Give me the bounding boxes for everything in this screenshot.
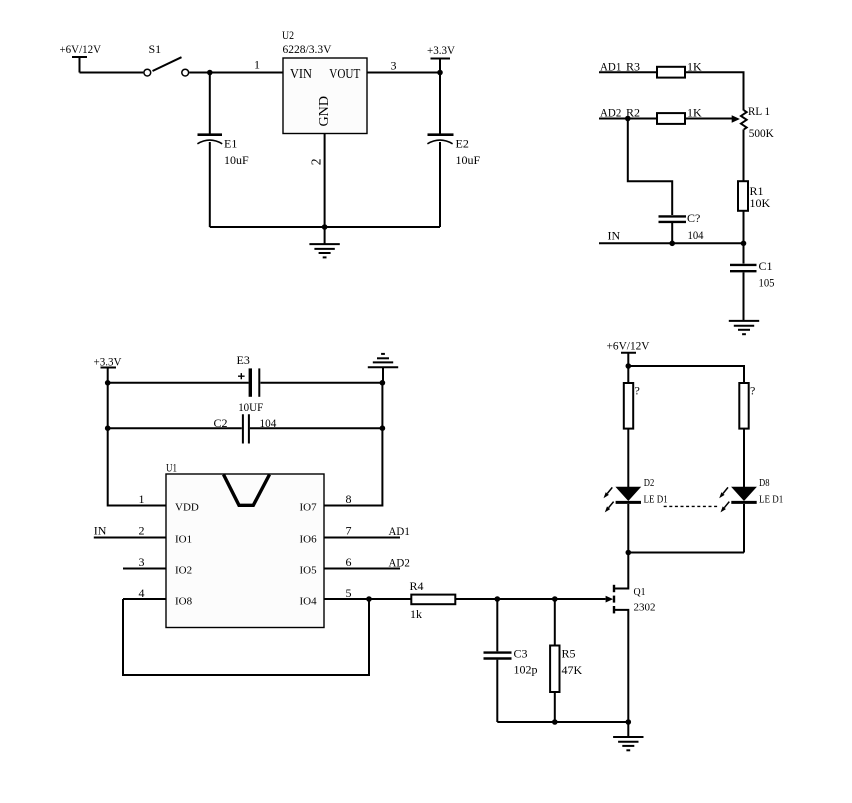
capacitor C? [659, 211, 704, 242]
svg-text:IO1: IO1 [175, 534, 192, 546]
junction [105, 425, 111, 431]
wire [671, 223, 673, 243]
svg-text:104: 104 [688, 228, 704, 242]
svg-text:E3: E3 [237, 353, 250, 367]
wire top rail [628, 366, 744, 383]
transistor Q1 [606, 585, 656, 722]
svg-text:1k: 1k [410, 607, 422, 621]
wire right vertical [324, 383, 382, 506]
svg-text:LE D1: LE D1 [759, 493, 783, 505]
junction [626, 550, 632, 556]
svg-text:U2: U2 [282, 28, 294, 42]
svg-text:+3.3V: +3.3V [427, 43, 455, 57]
svg-text:102p: 102p [514, 663, 538, 677]
svg-text:IO4: IO4 [300, 596, 318, 608]
svg-text:E1: E1 [224, 137, 237, 151]
svg-text:LE D1: LE D1 [644, 493, 668, 505]
svg-text:IO2: IO2 [175, 565, 192, 577]
wiper arrow [732, 115, 740, 123]
svg-text:C2: C2 [214, 416, 228, 430]
svg-text:VDD: VDD [175, 502, 199, 514]
junction [669, 241, 675, 247]
power +6V/12V (top-left) [60, 42, 102, 73]
junction [380, 425, 386, 431]
junction [495, 596, 501, 602]
pin 2 wire [94, 537, 166, 539]
svg-text:IO7: IO7 [300, 502, 318, 514]
svg-text:IN: IN [608, 229, 621, 243]
resistor ? (left) [624, 383, 640, 429]
wire to gate [455, 598, 605, 600]
svg-text:GND: GND [316, 96, 331, 127]
ground (U2) [309, 227, 339, 257]
svg-text:10uF: 10uF [224, 153, 249, 167]
junction [625, 116, 631, 122]
svg-text:3: 3 [391, 59, 397, 73]
capacitor C3 [484, 599, 538, 722]
capacitor E3 [237, 353, 264, 414]
svg-text:2: 2 [139, 524, 145, 538]
junction [626, 363, 632, 369]
IC U1 [166, 461, 324, 628]
resistor R4 [410, 579, 456, 621]
svg-text:6: 6 [346, 555, 352, 569]
svg-text:R4: R4 [410, 579, 424, 593]
svg-text:?: ? [635, 384, 640, 398]
resistor R5 [550, 599, 582, 722]
wire joining LED branches [628, 552, 744, 554]
svg-text:D2: D2 [644, 477, 655, 489]
svg-text:500K: 500K [749, 126, 774, 140]
potentiometer RL1 [741, 104, 774, 140]
wire [627, 429, 629, 487]
wire C2 rail right [250, 427, 383, 429]
pin 4 wire [123, 598, 166, 600]
wire [189, 72, 283, 74]
pin 5 wire [324, 598, 411, 600]
wire [685, 72, 744, 110]
ground (Q1) [613, 722, 643, 750]
wire [627, 504, 629, 553]
svg-text:47K: 47K [562, 663, 583, 677]
junction [741, 241, 747, 247]
wire to potentiometer wiper [685, 118, 732, 120]
wire [627, 366, 629, 383]
wire [743, 211, 745, 244]
svg-text:10uF: 10uF [456, 153, 481, 167]
junction [437, 70, 443, 76]
svg-text:2302: 2302 [634, 602, 656, 614]
pin 3 wire [367, 72, 440, 74]
svg-text:?: ? [750, 384, 755, 398]
pin 6 wire [324, 568, 400, 570]
capacitor E1 [197, 73, 249, 228]
switch S1 [144, 42, 189, 76]
resistor ? (right) [739, 383, 755, 429]
power +3.3V (top) [427, 43, 455, 73]
LED D8 [719, 477, 783, 513]
junction [322, 224, 328, 230]
junction [380, 380, 386, 386]
resistor R2 [599, 106, 702, 124]
svg-text:E2: E2 [456, 137, 469, 151]
wire VCC rail [108, 382, 249, 384]
svg-text:6228/3.3V: 6228/3.3V [283, 42, 332, 56]
capacitor C2 [214, 414, 277, 443]
junction [366, 596, 372, 602]
wire [743, 429, 745, 487]
power +3.3V (U1 section) [94, 355, 122, 383]
junction [552, 596, 558, 602]
svg-text:1: 1 [254, 58, 260, 72]
capacitor E2 [427, 73, 480, 228]
svg-text:RL 1: RL 1 [748, 104, 770, 118]
wire [261, 382, 383, 384]
svg-text:10UF: 10UF [238, 400, 263, 414]
svg-text:IO6: IO6 [300, 534, 318, 546]
wire [743, 129, 745, 181]
svg-text:D8: D8 [759, 477, 770, 489]
wire bottom rail [497, 721, 628, 723]
svg-text:C?: C? [687, 211, 700, 225]
dashed link wire [664, 505, 720, 507]
svg-text:AD2: AD2 [389, 556, 410, 570]
svg-text:5: 5 [346, 586, 352, 600]
svg-text:C3: C3 [514, 647, 528, 661]
svg-text:7: 7 [346, 524, 352, 538]
svg-text:1: 1 [139, 492, 145, 506]
svg-text:+6V/12V: +6V/12V [60, 42, 102, 56]
svg-text:105: 105 [759, 275, 775, 289]
wire left vertical [108, 383, 166, 506]
svg-text:R5: R5 [562, 647, 576, 661]
ground (C1) [729, 321, 759, 334]
U2 pin 2 wire [324, 134, 326, 228]
svg-text:AD2: AD2 [600, 106, 621, 120]
svg-text:Q1: Q1 [634, 586, 646, 598]
LED D2 [604, 477, 668, 513]
resistor R1 [738, 181, 771, 211]
svg-text:AD1: AD1 [389, 524, 410, 538]
svg-text:IN: IN [94, 524, 107, 538]
junction [207, 70, 213, 76]
wire drain [615, 553, 629, 589]
wire [80, 72, 144, 74]
wire C2 rail left [108, 427, 242, 429]
power +6V/12V (LED section) [607, 339, 650, 367]
junction [626, 719, 632, 725]
svg-text:1K: 1K [687, 106, 702, 120]
resistor R3 [599, 60, 702, 78]
pin 3 wire [123, 568, 166, 570]
svg-text:8: 8 [346, 492, 352, 506]
svg-text:VOUT: VOUT [329, 66, 361, 81]
bottom wire (top-left) [210, 226, 440, 228]
loop wire pin4 to pin5 [123, 599, 369, 675]
svg-text:U1: U1 [166, 461, 177, 475]
svg-text:IO5: IO5 [300, 565, 318, 577]
svg-text:3: 3 [139, 555, 145, 569]
svg-text:C1: C1 [759, 259, 773, 273]
wire [743, 504, 745, 553]
capacitor C1 [730, 243, 775, 320]
svg-text:IO8: IO8 [175, 596, 193, 608]
junction [105, 380, 111, 386]
svg-text:+6V/12V: +6V/12V [607, 339, 650, 353]
svg-text:S1: S1 [149, 42, 162, 56]
svg-text:VIN: VIN [290, 66, 312, 81]
junction [552, 719, 558, 725]
svg-text:2: 2 [309, 159, 324, 166]
svg-text:10K: 10K [750, 196, 771, 210]
wire from AD2 node to C? [628, 119, 672, 216]
pin 7 wire [324, 537, 400, 539]
regulator U2 [282, 28, 367, 134]
ground (inverted, U1 section) [368, 354, 398, 383]
node IN wire [599, 242, 744, 244]
svg-text:4: 4 [139, 586, 145, 600]
svg-text:+3.3V: +3.3V [94, 355, 122, 369]
